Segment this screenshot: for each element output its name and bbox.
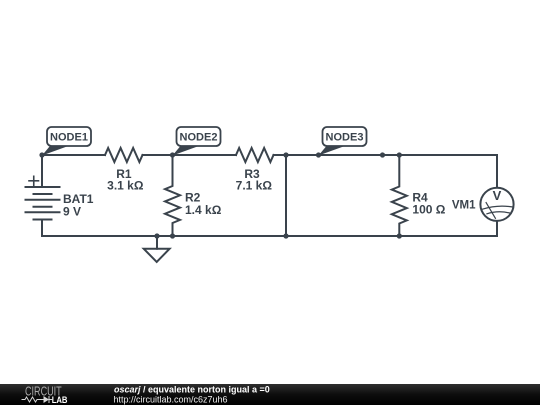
footer logo squiggle <box>22 396 54 403</box>
junction dot: mid vertical bottom <box>283 233 288 238</box>
junction dot: top rail near R4 <box>380 152 385 157</box>
wire: mid vertical junction <box>285 155 287 236</box>
voltmeter VM1 meter face <box>482 203 512 219</box>
voltmeter VM1 body <box>480 188 513 221</box>
svg-text:NODE3: NODE3 <box>326 132 364 144</box>
resistor R3 <box>236 148 274 162</box>
junction dot: R2 bottom <box>170 233 175 238</box>
wire: battery bottom lead <box>41 220 43 237</box>
battery plus sign <box>29 176 39 185</box>
wire top rail: R1 to node2 <box>143 154 173 156</box>
node C dot: node3 <box>316 152 321 157</box>
wire: voltmeter bottom lead <box>496 221 498 236</box>
svg-text:VM1: VM1 <box>452 200 476 212</box>
wire top rail: node1 to R1 <box>42 154 105 156</box>
svg-text:7.1 kΩ: 7.1 kΩ <box>236 178 273 192</box>
svg-text:3.1 kΩ: 3.1 kΩ <box>107 178 144 192</box>
junction dot: R4 top <box>397 152 402 157</box>
svg-text:http://circuitlab.com/c6z7uh6: http://circuitlab.com/c6z7uh6 <box>114 394 228 404</box>
wire top rail: R3 to right corner <box>274 154 498 156</box>
junction dot: ground <box>154 233 159 238</box>
junction dot: R4 bottom <box>397 233 402 238</box>
svg-text:LAB: LAB <box>52 395 68 405</box>
wire bottom rail <box>42 235 497 237</box>
node NODE1 callout <box>42 127 91 156</box>
svg-text:oscarj / equvalente norton igu: oscarj / equvalente norton igual a =0 <box>114 385 270 395</box>
svg-text:V: V <box>493 188 502 203</box>
svg-text:100 Ω: 100 Ω <box>412 203 445 217</box>
junction dots <box>39 152 402 238</box>
wire top rail: node2 to R3 <box>173 154 237 156</box>
svg-text:NODE1: NODE1 <box>50 132 88 144</box>
node NODE2 callout <box>173 127 221 156</box>
junction dot: mid vertical top <box>283 152 288 157</box>
wire: voltmeter top lead <box>496 155 498 188</box>
resistor R2 <box>165 155 180 236</box>
svg-text:9 V: 9 V <box>63 204 81 218</box>
node A dot: node1 <box>39 152 44 157</box>
node NODE3 callout <box>319 127 367 156</box>
node B dot: node2 <box>170 152 175 157</box>
footer bar <box>0 384 540 405</box>
ground <box>144 236 170 262</box>
svg-text:NODE2: NODE2 <box>180 132 218 144</box>
svg-text:1.4 kΩ: 1.4 kΩ <box>185 203 222 217</box>
battery BAT1 <box>26 187 60 220</box>
resistor R1 <box>105 148 143 162</box>
wire: battery top lead <box>41 155 43 187</box>
resistor R4 <box>392 155 407 236</box>
